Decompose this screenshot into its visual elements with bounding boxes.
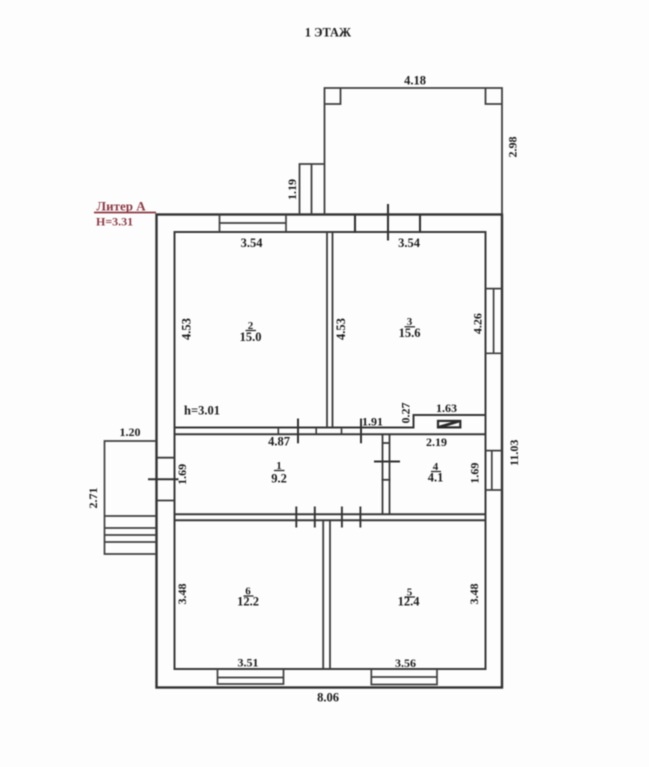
svg-text:11.03: 11.03 — [507, 440, 521, 466]
svg-text:15.0: 15.0 — [240, 330, 262, 344]
svg-text:1.69: 1.69 — [175, 464, 189, 485]
svg-text:1.20: 1.20 — [120, 425, 141, 439]
svg-text:2.19: 2.19 — [426, 435, 447, 449]
svg-text:1.91: 1.91 — [362, 415, 383, 429]
svg-text:1 ЭТАЖ: 1 ЭТАЖ — [305, 26, 352, 40]
svg-text:4.1: 4.1 — [428, 471, 444, 485]
svg-text:1.19: 1.19 — [285, 179, 299, 200]
svg-text:Н=3.31: Н=3.31 — [96, 215, 133, 229]
svg-text:2.71: 2.71 — [86, 488, 100, 509]
svg-text:3.51: 3.51 — [238, 656, 259, 670]
svg-text:h=3.01: h=3.01 — [184, 404, 220, 418]
svg-text:9.2: 9.2 — [271, 472, 287, 486]
svg-text:3.48: 3.48 — [175, 584, 189, 605]
svg-text:12.2: 12.2 — [237, 595, 259, 609]
svg-text:1.63: 1.63 — [436, 401, 457, 415]
svg-text:3.56: 3.56 — [395, 656, 416, 670]
svg-text:0.27: 0.27 — [399, 403, 413, 424]
svg-text:3.54: 3.54 — [398, 236, 421, 250]
svg-text:8.06: 8.06 — [317, 691, 339, 705]
svg-text:15.6: 15.6 — [399, 326, 421, 340]
svg-text:4.53: 4.53 — [334, 318, 348, 340]
svg-text:Литер А: Литер А — [96, 199, 146, 214]
svg-text:4.26: 4.26 — [471, 313, 485, 334]
svg-text:2.98: 2.98 — [506, 137, 520, 158]
svg-text:4.53: 4.53 — [179, 318, 193, 340]
svg-text:12.4: 12.4 — [398, 595, 421, 609]
svg-text:3.54: 3.54 — [241, 236, 264, 250]
svg-text:4.87: 4.87 — [268, 435, 290, 449]
svg-text:3.48: 3.48 — [467, 584, 481, 605]
svg-text:1.69: 1.69 — [468, 463, 482, 484]
svg-text:4.18: 4.18 — [404, 74, 426, 88]
